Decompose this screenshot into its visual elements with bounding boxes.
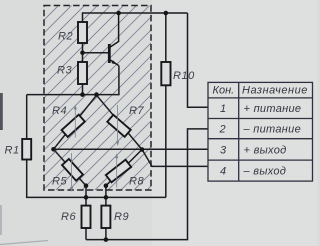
wire: R10 bottom lead down <box>165 85 167 197</box>
table row 2: - питание <box>219 124 302 136</box>
strain arrow on R7 <box>116 105 119 146</box>
svg-text:– выход: – выход <box>243 166 287 178</box>
svg-text:R6: R6 <box>61 211 76 223</box>
resistor R10 <box>161 62 170 85</box>
node: R3 bottom on mid wire <box>80 92 85 97</box>
svg-text:+ питание: + питание <box>244 103 302 115</box>
wire: top supply rail <box>83 13 188 22</box>
wire: bridge top vertical stub <box>96 94 98 97</box>
svg-text:4: 4 <box>220 166 226 178</box>
wire: bridge top to right node (R7 diagonal) <box>97 95 143 149</box>
node: bridge left <box>51 147 56 152</box>
table row 3: + выход <box>220 145 287 157</box>
node: R1 wire joins R6 branch <box>84 195 89 200</box>
strain arrow on R8 <box>115 153 118 187</box>
svg-text:R5: R5 <box>52 176 67 188</box>
wire: base wire to transistor <box>83 52 109 54</box>
table row 4: - выход <box>220 166 286 178</box>
wire: bottom rail to table row 2 <box>86 129 208 240</box>
node: bridge right <box>140 147 145 152</box>
node: R2-R3 junction <box>80 50 85 55</box>
transistor V1 <box>109 13 118 66</box>
wire: R3 bottom lead <box>82 84 84 95</box>
wire: bridge top to left node (R4 diagonal) <box>54 95 97 149</box>
wire: right node diagonal to row 4 wire <box>143 150 209 166</box>
resistor R6 <box>82 206 91 228</box>
node: bottom-left bridge <box>84 183 89 188</box>
sensor housing dashed outline <box>44 6 151 191</box>
node: R10 on top rail <box>164 11 169 16</box>
scan artifact bottom left faint line <box>0 241 48 245</box>
strain arrow on R4 <box>74 105 77 138</box>
resistor R3 <box>78 62 87 84</box>
wire: output wire to table row 3 <box>54 148 209 150</box>
wire: rail down to table row 1 <box>188 13 209 107</box>
resistor R1 <box>22 139 31 160</box>
node: bottom-right bridge <box>104 183 109 188</box>
svg-text:R3: R3 <box>57 65 72 77</box>
resistor R8 <box>106 160 131 183</box>
svg-text:R7: R7 <box>129 105 144 117</box>
wire: bottom-left node down through R6 <box>85 186 87 240</box>
svg-text:1: 1 <box>220 103 226 115</box>
svg-text:Назначение: Назначение <box>242 85 308 97</box>
scan artifact left edge <box>0 93 3 130</box>
resistor R2 <box>78 22 87 43</box>
wire: mid horizontal node wire <box>27 66 119 95</box>
wire: left node to bottom-left node (R5 diagonal) <box>54 149 87 185</box>
svg-text:3: 3 <box>220 145 227 157</box>
resistor R9 <box>101 206 110 228</box>
svg-text:– питание: – питание <box>243 124 302 136</box>
svg-text:R2: R2 <box>58 31 73 43</box>
svg-text:R10: R10 <box>173 70 195 82</box>
svg-text:R4: R4 <box>52 105 67 117</box>
resistor R5 <box>62 159 83 181</box>
wire: bottom-right node down through R9 <box>105 186 107 240</box>
svg-text:R9: R9 <box>114 211 129 223</box>
svg-text:+ выход: + выход <box>244 145 287 157</box>
table row 1: + питание <box>220 103 301 115</box>
svg-text:Кон.: Кон. <box>213 85 235 97</box>
svg-text:R8: R8 <box>129 176 144 188</box>
svg-text:R1: R1 <box>5 145 20 157</box>
svg-text:2: 2 <box>219 124 226 136</box>
node: bridge top <box>94 92 99 97</box>
strain arrow on R5 <box>70 153 73 192</box>
table header <box>213 85 308 97</box>
node: R9 on bottom rail <box>104 237 109 242</box>
wire: R1 bottom lead to bridge bottom <box>27 160 166 198</box>
node: R10 wire joins R9 branch <box>104 195 109 200</box>
wire: R2-R3 junction segment <box>82 43 84 62</box>
resistor R7 <box>107 115 130 137</box>
wire: bottom-right node to right node (R8 diagonal) <box>106 150 142 186</box>
wire: R10 top lead <box>165 13 167 62</box>
node: collector on top rail <box>116 11 121 16</box>
wire: R1 top lead <box>26 95 28 139</box>
resistor R4 <box>62 115 85 137</box>
pin table frame <box>208 82 313 181</box>
